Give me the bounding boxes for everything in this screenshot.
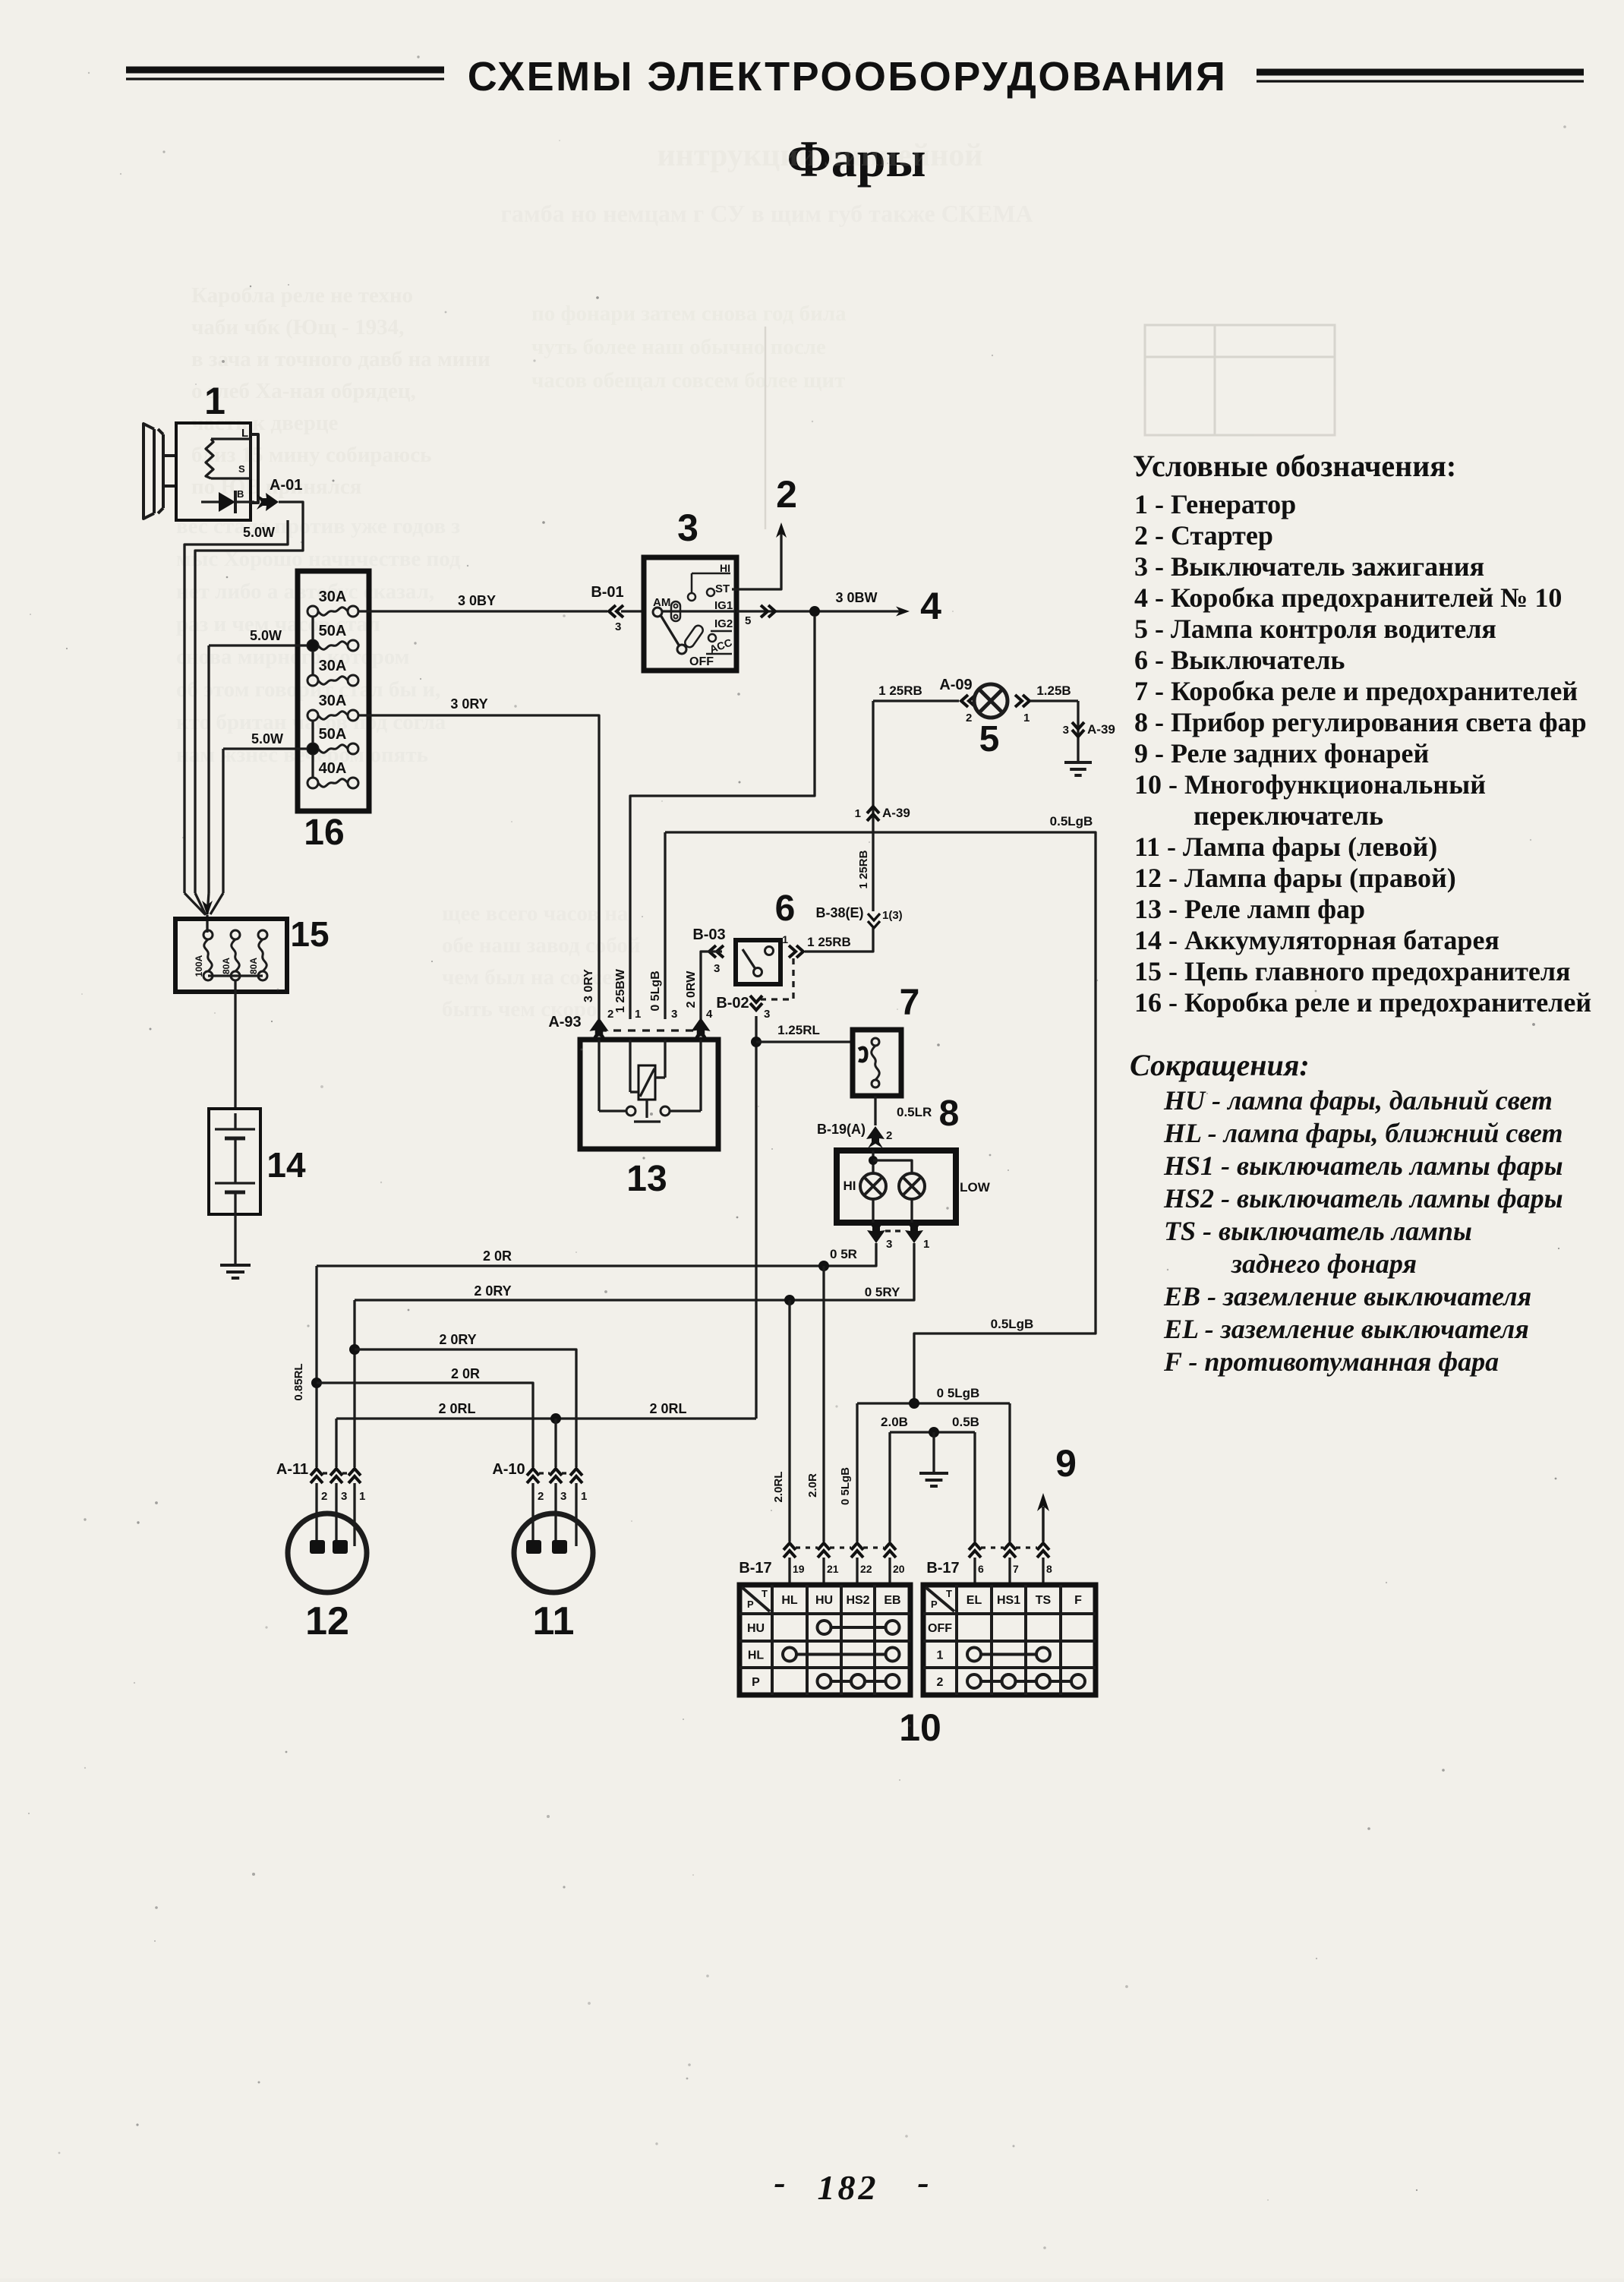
svg-text:Сокращения:: Сокращения: bbox=[1130, 1048, 1310, 1082]
svg-text:2 - Стартер: 2 - Стартер bbox=[1134, 520, 1273, 551]
svg-text:10: 10 bbox=[899, 1706, 941, 1749]
svg-text:2: 2 bbox=[776, 473, 797, 516]
svg-text:1 - Генератор: 1 - Генератор bbox=[1134, 489, 1296, 519]
svg-text:P: P bbox=[752, 1676, 760, 1689]
svg-text:1: 1 bbox=[635, 1008, 641, 1021]
svg-text:1: 1 bbox=[359, 1490, 365, 1503]
svg-text:10 - Многофункциональный: 10 - Многофункциональный bbox=[1134, 769, 1486, 800]
svg-text:5: 5 bbox=[979, 719, 1000, 759]
svg-text:2: 2 bbox=[321, 1490, 327, 1503]
svg-text:2 0R: 2 0R bbox=[451, 1366, 480, 1381]
svg-text:80A: 80A bbox=[221, 958, 232, 974]
svg-text:EL: EL bbox=[967, 1594, 982, 1607]
svg-text:A-39: A-39 bbox=[882, 806, 910, 820]
svg-text:9: 9 bbox=[1055, 1442, 1077, 1485]
svg-text:B: B bbox=[237, 488, 244, 500]
svg-text:HU: HU bbox=[815, 1594, 833, 1607]
svg-text:нет либо а автобус сказал,: нет либо а автобус сказал, bbox=[176, 579, 434, 604]
svg-text:P: P bbox=[931, 1599, 938, 1610]
svg-text:5.0W: 5.0W bbox=[243, 525, 275, 540]
svg-text:0 5R: 0 5R bbox=[830, 1247, 857, 1261]
svg-text:50A: 50A bbox=[319, 726, 347, 743]
svg-text:3 0BY: 3 0BY bbox=[458, 593, 496, 608]
svg-text:HI: HI bbox=[720, 562, 730, 574]
svg-text:TS: TS bbox=[1036, 1594, 1052, 1607]
svg-text:2 0RL: 2 0RL bbox=[438, 1401, 475, 1416]
svg-text:S: S bbox=[238, 463, 245, 475]
svg-text:6: 6 bbox=[775, 888, 796, 929]
svg-text:3: 3 bbox=[714, 962, 720, 975]
svg-text:12: 12 bbox=[305, 1599, 349, 1643]
svg-text:HI: HI bbox=[844, 1179, 856, 1193]
svg-text:кто британ часов под согла: кто британ часов под согла bbox=[176, 710, 446, 734]
svg-text:обе наш завод собой: обе наш завод собой bbox=[442, 933, 641, 958]
svg-text:0.5LgB: 0.5LgB bbox=[991, 1317, 1034, 1331]
svg-text:L: L bbox=[241, 427, 248, 440]
svg-text:3: 3 bbox=[615, 620, 621, 633]
svg-text:2 0RW: 2 0RW bbox=[685, 971, 698, 1008]
svg-text:3: 3 bbox=[671, 1008, 677, 1021]
svg-text:80A: 80A bbox=[248, 958, 259, 974]
svg-text:HS1 - выключатель лампы фары: HS1 - выключатель лампы фары bbox=[1163, 1150, 1563, 1181]
svg-text:11: 11 bbox=[533, 1599, 575, 1643]
svg-text:HU - лампа фары, дальний свет: HU - лампа фары, дальний свет bbox=[1163, 1085, 1553, 1116]
svg-text:5.0W: 5.0W bbox=[250, 628, 282, 643]
svg-text:2 0RY: 2 0RY bbox=[474, 1283, 511, 1299]
svg-text:OFF: OFF bbox=[689, 655, 714, 668]
svg-text:вес стала против уже годов з: вес стала против уже годов з bbox=[176, 514, 460, 538]
svg-text:1.25B: 1.25B bbox=[1036, 683, 1071, 698]
svg-text:2: 2 bbox=[886, 1129, 892, 1142]
svg-text:5: 5 bbox=[745, 614, 751, 627]
svg-text:1 25RB: 1 25RB bbox=[807, 935, 851, 949]
svg-text:Каробла реле не техно: Каробла реле не техно bbox=[191, 283, 413, 308]
svg-text:9 - Реле задних фонарей: 9 - Реле задних фонарей bbox=[1134, 738, 1429, 769]
svg-text:2.0RL: 2.0RL bbox=[772, 1472, 785, 1503]
svg-text:близ 15 мину собираюсь: близ 15 мину собираюсь bbox=[191, 443, 431, 467]
svg-text:15: 15 bbox=[290, 914, 329, 954]
svg-text:IG2: IG2 bbox=[714, 617, 733, 630]
svg-text:6 - Выключатель: 6 - Выключатель bbox=[1134, 645, 1345, 675]
svg-text:4: 4 bbox=[920, 585, 941, 627]
svg-text:30A: 30A bbox=[319, 658, 347, 674]
svg-text:0.85RL: 0.85RL bbox=[292, 1363, 305, 1400]
svg-text:1: 1 bbox=[923, 1238, 929, 1251]
svg-text:0.5B: 0.5B bbox=[952, 1415, 979, 1429]
svg-text:A-09: A-09 bbox=[939, 677, 972, 693]
svg-text:20: 20 bbox=[893, 1563, 905, 1575]
svg-text:182: 182 bbox=[818, 2168, 879, 2207]
svg-text:EB: EB bbox=[884, 1594, 900, 1607]
svg-text:2.0B: 2.0B bbox=[881, 1415, 908, 1429]
svg-text:A-39: A-39 bbox=[1087, 722, 1115, 737]
svg-text:P: P bbox=[747, 1599, 754, 1610]
svg-text:2.0R: 2.0R bbox=[806, 1473, 819, 1498]
svg-text:СХЕМЫ ЭЛЕКТРООБОРУДОВАНИЯ: СХЕМЫ ЭЛЕКТРООБОРУДОВАНИЯ bbox=[468, 54, 1228, 99]
svg-text:13: 13 bbox=[626, 1159, 667, 1199]
svg-text:15 - Цепь главного предохранит: 15 - Цепь главного предохранителя bbox=[1134, 956, 1571, 986]
svg-text:6: 6 bbox=[978, 1563, 984, 1575]
svg-text:30A: 30A bbox=[319, 589, 347, 605]
svg-text:HL: HL bbox=[748, 1649, 765, 1662]
svg-text:заднего фонаря: заднего фонаря bbox=[1231, 1248, 1417, 1279]
svg-text:снова мирного котором: снова мирного котором bbox=[176, 645, 409, 669]
svg-text:B-38(E): B-38(E) bbox=[815, 905, 863, 920]
svg-text:5.0W: 5.0W bbox=[251, 731, 283, 746]
svg-text:нам жзнес вечером опять: нам жзнес вечером опять bbox=[176, 743, 428, 767]
svg-text:3 0RY: 3 0RY bbox=[582, 969, 595, 1002]
svg-text:2 0RL: 2 0RL bbox=[649, 1401, 686, 1416]
svg-text:30A: 30A bbox=[319, 693, 347, 709]
svg-text:16 - Коробка реле и предохрани: 16 - Коробка реле и предохранителей bbox=[1134, 987, 1591, 1018]
svg-text:B-01: B-01 bbox=[591, 584, 623, 601]
svg-text:HS2: HS2 bbox=[846, 1594, 869, 1607]
svg-text:чаби чбк (Ющ - 1934,: чаби чбк (Ющ - 1934, bbox=[191, 315, 404, 339]
svg-text:3 - Выключатель зажигания: 3 - Выключатель зажигания bbox=[1134, 551, 1484, 582]
svg-text:3: 3 bbox=[1063, 724, 1069, 737]
svg-text:A-93: A-93 bbox=[548, 1014, 581, 1031]
svg-text:22: 22 bbox=[860, 1563, 872, 1575]
svg-text:LOW: LOW bbox=[960, 1180, 991, 1195]
svg-text:гамба но немцам г СУ в щим губ: гамба но немцам г СУ в щим губ также СКЕ… bbox=[500, 200, 1033, 227]
svg-text:1(3): 1(3) bbox=[882, 909, 903, 922]
svg-text:13 - Реле ламп фар: 13 - Реле ламп фар bbox=[1134, 894, 1365, 924]
svg-text:11 - Лампа фары (левой): 11 - Лампа фары (левой) bbox=[1134, 832, 1437, 862]
svg-text:7: 7 bbox=[900, 983, 920, 1023]
svg-text:HL - лампа фары, ближний свет: HL - лампа фары, ближний свет bbox=[1163, 1118, 1563, 1148]
svg-text:16: 16 bbox=[304, 813, 344, 853]
svg-text:0 5LgB: 0 5LgB bbox=[649, 971, 662, 1011]
svg-text:HU: HU bbox=[747, 1622, 765, 1635]
svg-text:ST: ST bbox=[715, 582, 730, 595]
svg-text:1 25RB: 1 25RB bbox=[857, 850, 870, 888]
svg-text:1: 1 bbox=[782, 933, 788, 945]
svg-text:21: 21 bbox=[827, 1563, 839, 1575]
svg-text:2 0RY: 2 0RY bbox=[439, 1332, 476, 1347]
svg-text:0.5LgB: 0.5LgB bbox=[1050, 814, 1093, 829]
svg-text:0 5LgB: 0 5LgB bbox=[937, 1386, 980, 1400]
svg-text:T: T bbox=[946, 1588, 952, 1599]
svg-text:40A: 40A bbox=[319, 760, 347, 777]
svg-text:щее всего часов на: щее всего часов на bbox=[442, 901, 629, 926]
svg-text:3: 3 bbox=[560, 1490, 566, 1503]
svg-text:3 0RY: 3 0RY bbox=[450, 696, 487, 712]
svg-text:3 0BW: 3 0BW bbox=[835, 590, 877, 605]
svg-text:19: 19 bbox=[793, 1563, 805, 1575]
svg-text:B-03: B-03 bbox=[692, 926, 725, 943]
svg-text:2 0R: 2 0R bbox=[483, 1248, 512, 1264]
svg-text:0.5LR: 0.5LR bbox=[897, 1105, 932, 1119]
svg-text:IG1: IG1 bbox=[714, 599, 733, 612]
svg-text:4 - Коробка предохранителей №: 4 - Коробка предохранителей № 10 bbox=[1134, 582, 1562, 613]
svg-text:100A: 100A bbox=[194, 955, 204, 977]
svg-text:1: 1 bbox=[855, 807, 861, 820]
svg-text:1 25BW: 1 25BW bbox=[614, 968, 627, 1013]
svg-text:Условные обозначения:: Условные обозначения: bbox=[1133, 449, 1456, 483]
svg-text:2: 2 bbox=[937, 1676, 944, 1689]
svg-text:A-11: A-11 bbox=[276, 1461, 308, 1478]
svg-text:2: 2 bbox=[966, 712, 972, 724]
svg-text:A-01: A-01 bbox=[270, 477, 302, 494]
svg-text:B-19(A): B-19(A) bbox=[817, 1122, 866, 1137]
svg-text:2: 2 bbox=[538, 1490, 544, 1503]
svg-text:5 - Лампа контроля водителя: 5 - Лампа контроля водителя bbox=[1134, 614, 1496, 644]
svg-text:интрукции линиейной: интрукции линиейной bbox=[657, 138, 982, 173]
svg-text:A-10: A-10 bbox=[492, 1461, 525, 1478]
svg-text:F - противотуманная фара: F - противотуманная фара bbox=[1163, 1346, 1499, 1377]
svg-text:HS1: HS1 bbox=[997, 1594, 1020, 1607]
svg-text:HL: HL bbox=[781, 1594, 798, 1607]
svg-text:8 - Прибор регулирования света: 8 - Прибор регулирования света фар bbox=[1134, 707, 1587, 737]
svg-text:-: - bbox=[917, 2163, 929, 2202]
svg-text:12 - Лампа фары (правой): 12 - Лампа фары (правой) bbox=[1134, 863, 1456, 893]
svg-text:0 5LgB: 0 5LgB bbox=[839, 1467, 852, 1505]
svg-text:переключатель: переключатель bbox=[1194, 800, 1383, 831]
svg-text:0 5RY: 0 5RY bbox=[865, 1285, 900, 1299]
svg-text:в зача и точного давб на мини: в зача и точного давб на мини bbox=[191, 347, 490, 371]
svg-text:1: 1 bbox=[581, 1490, 587, 1503]
svg-text:-: - bbox=[774, 2163, 785, 2202]
svg-text:3: 3 bbox=[764, 1008, 770, 1021]
svg-text:8: 8 bbox=[939, 1094, 960, 1134]
svg-text:1: 1 bbox=[204, 380, 225, 422]
svg-text:3: 3 bbox=[677, 507, 698, 549]
svg-text:чуть более наш обычно после: чуть более наш обычно после bbox=[531, 335, 826, 359]
svg-text:3: 3 bbox=[341, 1490, 347, 1503]
svg-text:50A: 50A bbox=[319, 623, 347, 639]
svg-text:F: F bbox=[1074, 1594, 1082, 1607]
svg-text:1 25RB: 1 25RB bbox=[878, 683, 922, 698]
svg-text:7: 7 bbox=[1013, 1563, 1019, 1575]
svg-text:8: 8 bbox=[1046, 1563, 1052, 1575]
svg-text:T: T bbox=[762, 1588, 768, 1599]
svg-text:3: 3 bbox=[886, 1238, 892, 1251]
svg-text:TS - выключатель лампы: TS - выключатель лампы bbox=[1164, 1216, 1472, 1246]
svg-text:1: 1 bbox=[937, 1649, 944, 1662]
svg-text:EB - заземление выключателя: EB - заземление выключателя bbox=[1163, 1281, 1531, 1311]
svg-text:HS2 - выключатель лампы фары: HS2 - выключатель лампы фары bbox=[1163, 1183, 1563, 1214]
svg-text:4: 4 bbox=[706, 1008, 713, 1021]
svg-text:14: 14 bbox=[266, 1145, 306, 1185]
svg-text:B-17: B-17 bbox=[926, 1560, 959, 1577]
svg-text:14 - Аккумуляторная батарея: 14 - Аккумуляторная батарея bbox=[1134, 925, 1499, 955]
svg-text:EL - заземление выключателя: EL - заземление выключателя bbox=[1163, 1314, 1529, 1344]
svg-text:7 - Коробка реле и предохранит: 7 - Коробка реле и предохранителей bbox=[1134, 676, 1578, 706]
svg-text:OFF: OFF bbox=[928, 1622, 952, 1635]
svg-text:2: 2 bbox=[607, 1008, 613, 1021]
svg-text:часов обещал совсем более щит: часов обещал совсем более щит bbox=[531, 368, 845, 393]
svg-text:по фонари затем снова год била: по фонари затем снова год била bbox=[531, 301, 847, 326]
svg-text:B-02: B-02 bbox=[716, 995, 749, 1012]
svg-text:1: 1 bbox=[1023, 712, 1030, 724]
svg-text:B-17: B-17 bbox=[739, 1560, 771, 1577]
svg-text:1.25RL: 1.25RL bbox=[777, 1023, 820, 1037]
